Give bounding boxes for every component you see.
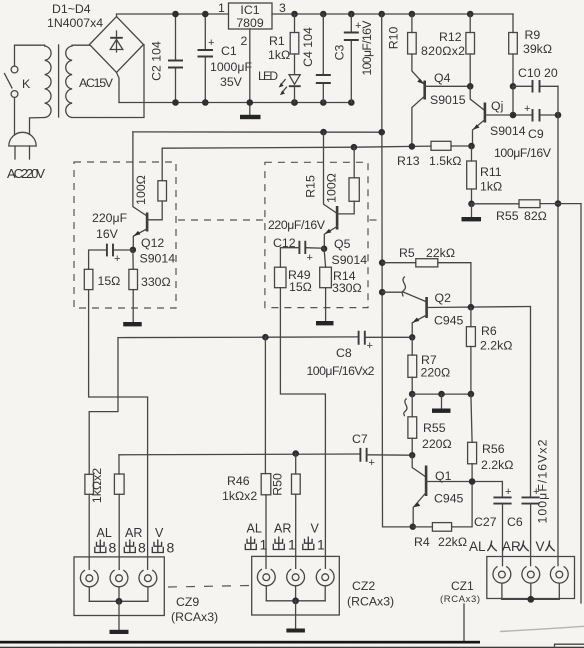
connector CZ1 RCAx3 — [487, 557, 575, 603]
labels AL/AR/V out1 (CZ2) — [245, 522, 325, 553]
dashes between boxes — [178, 219, 263, 221]
capacitor C27 — [474, 482, 512, 566]
CZ1 ground stub line — [463, 604, 465, 643]
ground G5 — [432, 394, 451, 413]
ground G3 — [123, 290, 142, 327]
rail junction dots — [172, 11, 473, 106]
connector CZ2 RCAx3 — [252, 556, 340, 615]
transistor Q1 C945 — [409, 452, 502, 527]
transistor Q12 S9014 — [133, 201, 175, 266]
transistor Q3 S9014 — [473, 99, 533, 146]
wire load feed y147 — [162, 143, 431, 150]
capacitor C6 — [507, 307, 540, 566]
resistor R46 1k — [222, 337, 271, 568]
wire emitter gnd bus y394 — [409, 391, 474, 398]
wire C8 node y337 — [118, 334, 359, 341]
dashed box unit 1 — [74, 162, 176, 308]
resistor R55 220ohm — [404, 394, 452, 455]
IC U1 7809 regulator — [218, 1, 286, 48]
wire switch bottom to plug — [14, 98, 16, 135]
dashes right of box2 — [370, 219, 382, 221]
ground G6 — [110, 601, 129, 634]
wire IC1 pin2 to gnd rail — [249, 29, 251, 103]
ground G4 — [316, 288, 334, 326]
label CZ1 (faded) — [440, 579, 480, 605]
resistor R55 82ohm — [472, 200, 582, 223]
resistor R7 220ohm — [408, 334, 450, 394]
faint curve bottom right — [500, 626, 584, 631]
resistor R9 39k — [509, 14, 552, 86]
transistor Q4 S9015 — [412, 54, 470, 146]
wire into Q5 collector — [324, 132, 337, 213]
ground G7 — [286, 601, 305, 633]
LED D5 — [258, 69, 301, 103]
resistor R56 2.2k — [468, 394, 514, 481]
resistor R6 2.2k — [466, 304, 512, 394]
capacitor C4 — [301, 14, 331, 103]
wire 15ohm down jog to CZ9 V — [89, 290, 148, 570]
connector CZ9 RCAx3 — [74, 557, 164, 616]
labels AL/AR/V in (CZ1) — [469, 539, 555, 554]
switch K — [5, 66, 32, 97]
wire R49 down jog to CZ2 V — [280, 288, 325, 569]
resistor R50 1k — [271, 454, 301, 569]
resistor R15 100ohm — [304, 147, 360, 203]
resistor R14 330ohm — [320, 249, 362, 295]
labels AL/AR/V out8 (CZ9) — [95, 526, 175, 556]
transformer T1 core — [58, 45, 60, 117]
transformer T1 primary — [30, 46, 52, 134]
right edge rail — [580, 204, 582, 603]
bridge rectifier D1~D4 — [47, 2, 144, 73]
+9V rail wire — [272, 13, 513, 15]
resistor 330ohm (box1) — [129, 250, 171, 290]
resistor R13 1.5k — [397, 141, 475, 168]
ground G1 — [240, 103, 261, 120]
capacitor C12 220uF/16V — [268, 218, 327, 267]
transistor Q5 S9014 — [324, 201, 367, 267]
dashed box unit 2 — [265, 162, 368, 307]
resistor 15ohm (box1) — [84, 269, 120, 289]
resistor R10 — [387, 14, 417, 54]
transistor Q2 C945 — [379, 277, 530, 338]
resistor R11 1k — [467, 146, 502, 204]
wire bridge bottom to gnd rail — [117, 73, 120, 103]
resistors 1kohm x2 (CZ9) — [85, 455, 124, 570]
bottom separator line — [0, 641, 480, 644]
V input rail right — [555, 86, 562, 565]
resistor R5 22k — [379, 246, 471, 307]
ground G2 — [462, 201, 482, 222]
wire node to Q3 base — [470, 86, 484, 110]
wire switch top to transformer — [15, 45, 45, 66]
wire bridge top to +rail — [117, 14, 229, 17]
dashed link CZ9-CZ2 — [168, 586, 250, 588]
bottom edge line — [0, 647, 584, 648]
resistor R49 15ohm — [275, 267, 312, 294]
wire C8 node down jog to CZ9 AL resistor — [89, 338, 118, 475]
resistor R4 22k — [410, 478, 476, 549]
gnd rail wire — [119, 102, 351, 104]
transformer T1 secondary AC15V — [66, 45, 144, 118]
resistor R1 1k — [268, 14, 299, 75]
capacitor C3 100uF/16V — [333, 14, 375, 103]
wire into Q12 collector — [133, 132, 146, 216]
wire C7 node y454 — [119, 450, 360, 457]
capacitor C2 — [150, 14, 184, 103]
node R12/Q4 base — [467, 83, 474, 90]
capacitor 220uF/16V (box1) — [89, 211, 136, 269]
AC plug P1 — [7, 132, 45, 181]
vertical 9V feed rail — [382, 14, 413, 527]
capacitor C7 — [352, 432, 412, 469]
capacitor C9 100uF/16V — [494, 103, 558, 160]
capacitor C10 20 — [510, 66, 558, 115]
bottom right box corner — [555, 644, 584, 648]
resistor R12 820ohm x2 — [421, 14, 475, 86]
label CZ9 — [171, 595, 218, 624]
resistor 100ohm (Q12 load) — [134, 148, 167, 205]
label CZ2 — [347, 579, 394, 609]
capacitor C1 1000uF/35V — [198, 14, 253, 103]
wire collector feed y132 — [133, 129, 385, 136]
capacitor C8 100uF/16Vx2 — [307, 331, 413, 378]
